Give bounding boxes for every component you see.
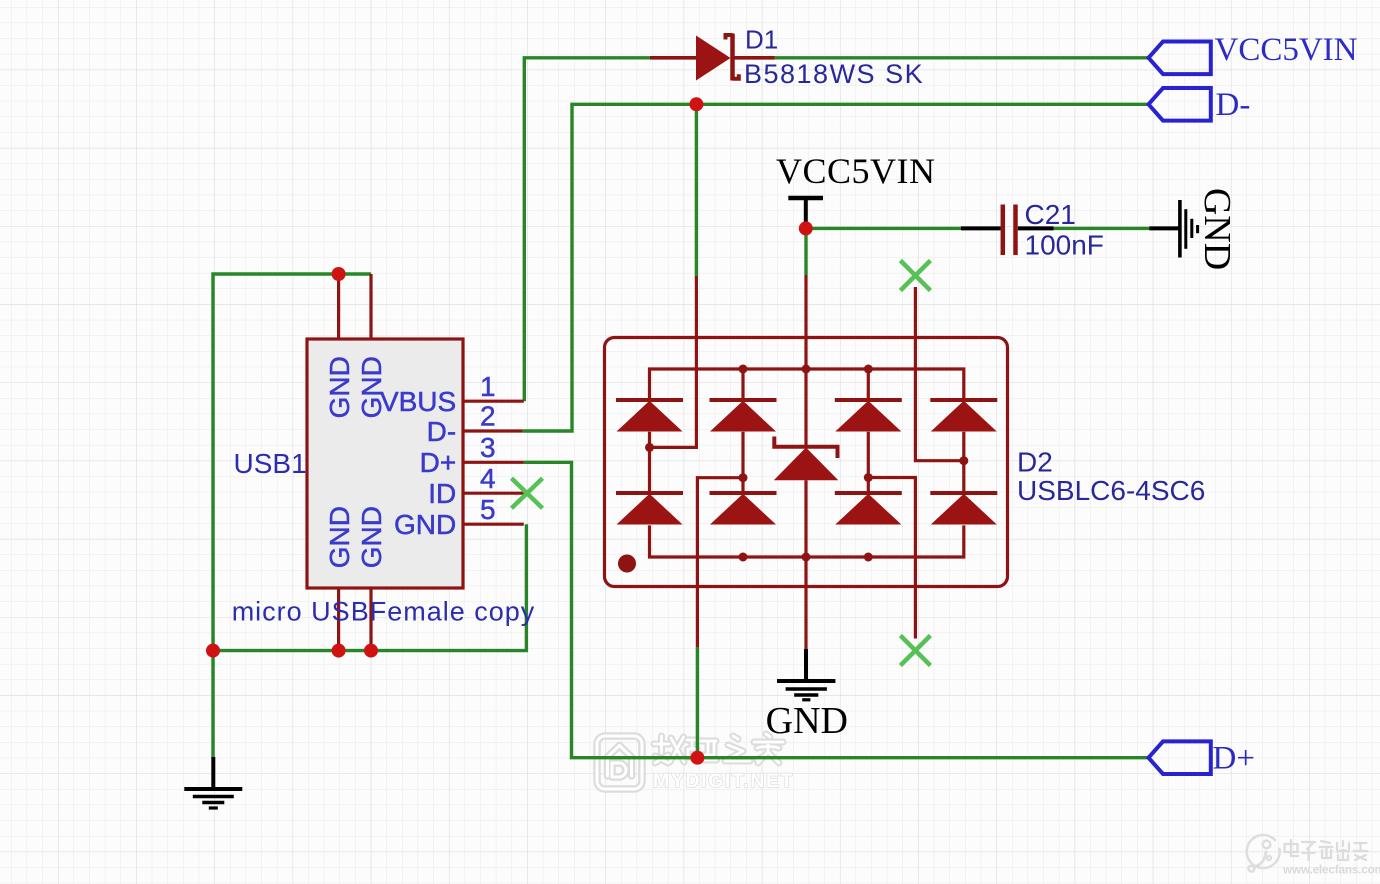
svg-text:5: 5 [480, 494, 496, 525]
wire D+ net (USB pin3 down and across bottom to D+ port) [524, 462, 1149, 757]
wire left GND drop [211, 651, 214, 758]
svg-text:micro USBFemale copy: micro USBFemale copy [232, 597, 536, 627]
svg-text:ID: ID [428, 478, 456, 509]
junction dot VCC net [799, 221, 813, 235]
wire D- net (USB pin2 up and across to D- port) [523, 104, 1149, 431]
svg-text:GND: GND [394, 509, 456, 540]
svg-text:VCC5VIN: VCC5VIN [1215, 32, 1358, 68]
watermark elecfans characters [1285, 840, 1368, 860]
svg-text:D1: D1 [745, 25, 778, 55]
svg-text:3: 3 [480, 432, 496, 463]
USB1 top GND stubs [339, 274, 371, 339]
wire bottom GND run [213, 524, 526, 650]
svg-text:1: 1 [480, 371, 496, 402]
junction dot top GND wire [332, 267, 346, 281]
svg-text:D+: D+ [420, 447, 457, 478]
junction dot D- net [689, 97, 703, 111]
svg-text:GND: GND [324, 506, 355, 568]
svg-text:D+: D+ [1213, 740, 1255, 776]
diode D1 [650, 34, 775, 81]
svg-text:100nF: 100nF [1025, 230, 1104, 261]
D2 pin1 marker dot [618, 555, 636, 573]
wire D+ drop from D2 [696, 647, 699, 758]
USB1 pin 4 ID stub [463, 492, 528, 495]
svg-text:D-: D- [1216, 87, 1251, 123]
ground symbol bottom left [184, 757, 242, 808]
labels USB1 pins [480, 371, 496, 525]
D2 column verticals [650, 369, 964, 557]
svg-text:GND: GND [356, 506, 387, 568]
D2 top rail [650, 369, 964, 400]
D2 bottom rail [650, 525, 964, 557]
no-connect X on D2 bottom pin [900, 636, 930, 666]
svg-text:GND: GND [1196, 188, 1238, 270]
port VCC5VIN [1149, 42, 1211, 75]
D2 internal diodes top row [616, 400, 683, 432]
USB1 pin 5 GND stub [463, 523, 524, 526]
D2 power pins [804, 275, 807, 649]
watermark mydigit characters [654, 734, 783, 763]
svg-text:GND: GND [356, 356, 387, 418]
svg-text:MYDIGIT.NET: MYDIGIT.NET [653, 770, 794, 792]
wire VBUS net (USB pin1 up and across top to VCC5VIN port) [524, 58, 1148, 401]
USB1 pin 2 D- stub [463, 429, 523, 432]
svg-text:GND: GND [324, 356, 355, 418]
svg-text:VCC5VIN: VCC5VIN [776, 151, 936, 191]
capacitor C21 [961, 205, 1054, 256]
junction dots bottom GND wire [206, 644, 220, 658]
svg-text:C21: C21 [1025, 199, 1076, 230]
USB1 connector body [307, 339, 463, 588]
USB1 pin 3 D+ stub [463, 461, 524, 464]
wire USB shell GND (left loop) [213, 274, 371, 651]
svg-text:D-: D- [427, 416, 457, 447]
port D- [1149, 88, 1211, 121]
svg-text:VBUS: VBUS [380, 386, 456, 417]
watermark elecfans logo [1247, 835, 1280, 871]
USB1 bottom GND stubs [339, 588, 371, 651]
D2 center zener diode [774, 437, 839, 481]
svg-text:B5818WS SK: B5818WS SK [744, 59, 924, 89]
ESD array D2 body [605, 338, 1008, 587]
svg-text:2: 2 [480, 401, 496, 432]
port D+ [1149, 741, 1211, 774]
D2 internal junction dots [645, 365, 968, 562]
svg-text:www.elecfans.com: www.elecfans.com [1282, 863, 1380, 877]
ground symbol below D2 [777, 649, 835, 700]
no-connect X on USB pin 4 [512, 478, 543, 508]
svg-text:USB1: USB1 [234, 448, 307, 479]
D2 IO link wires [650, 276, 964, 647]
wire D- drop to D2 [695, 104, 698, 276]
wire VCC5VIN net [806, 228, 1149, 275]
junction dot D+ net [690, 751, 704, 765]
watermark mydigit logo [597, 736, 642, 789]
svg-text:D2: D2 [1017, 447, 1053, 478]
D2 internal diodes bottom row [616, 493, 683, 525]
labels USB1 rotated GND pins [324, 356, 387, 568]
svg-text:USBLC6-4SC6: USBLC6-4SC6 [1017, 475, 1205, 506]
no-connect X on D2 top pin [900, 261, 930, 291]
svg-text:GND: GND [766, 700, 848, 742]
svg-text:4: 4 [480, 463, 496, 494]
power flag VCC5VIN [788, 198, 823, 228]
ground symbol right (rotated) [1149, 200, 1197, 258]
USB1 pin 1 VBUS stub [463, 400, 524, 403]
